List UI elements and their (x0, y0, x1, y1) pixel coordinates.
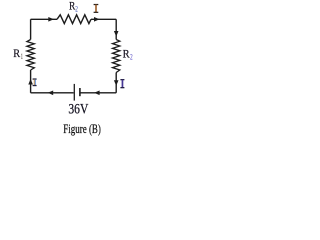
current arrow (left wire, pointing up) (28, 79, 33, 85)
current arrow (bottom wire left, pointing left) (48, 91, 54, 96)
current arrow (bottom wire right, pointing left) (94, 91, 100, 96)
resistor R1 (left) zigzag (27, 40, 34, 71)
wire: left lower segment (30, 70, 32, 93)
current arrow I (top wire right, pointing right) (94, 17, 100, 22)
wire: bottom-left segment (31, 92, 74, 94)
current arrow (right wire upper, pointing down) (114, 31, 119, 37)
svg-text:36V: 36V (68, 101, 88, 117)
wire: top-right segment (91, 18, 116, 20)
wire: right lower segment (115, 73, 117, 93)
label I (top current) (94, 4, 99, 13)
label I (left current) (33, 78, 37, 86)
resistor R2 (top) zigzag (57, 15, 91, 24)
current arrow I (top wire, pointing right) (48, 17, 54, 22)
svg-text:1: 1 (21, 52, 23, 61)
svg-text:Figure (B): Figure (B) (63, 122, 101, 136)
wire: top-left segment (31, 18, 57, 20)
svg-text:R: R (123, 46, 130, 60)
svg-text:2: 2 (75, 4, 78, 13)
wire: bottom-right segment (81, 92, 117, 94)
current arrow (right wire lower, pointing down) (114, 80, 119, 86)
wire: left upper segment (30, 19, 32, 39)
svg-text:R: R (13, 46, 20, 60)
battery V1 short plate (negative) (79, 88, 81, 96)
wire: right upper segment (115, 19, 117, 39)
resistor R2 (right) zigzag (113, 40, 120, 73)
svg-text:2: 2 (130, 52, 133, 61)
battery V1 long plate (positive) (73, 84, 75, 101)
label I (right current) (120, 79, 124, 88)
